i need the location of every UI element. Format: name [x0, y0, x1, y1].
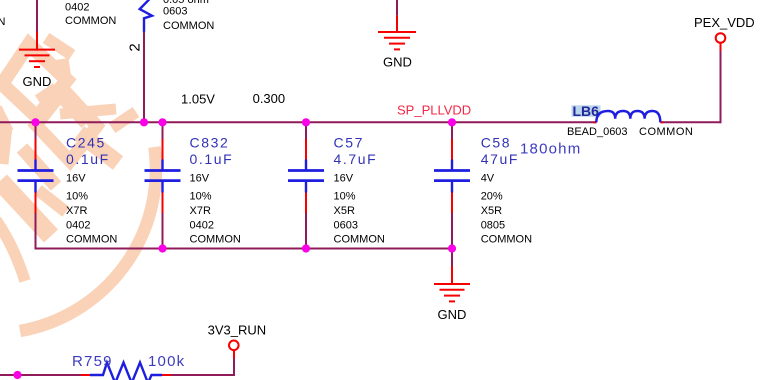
- svg-text:20%: 20%: [481, 191, 503, 203]
- svg-text:0.300: 0.300: [253, 91, 286, 106]
- svg-text:0402: 0402: [66, 219, 90, 231]
- svg-text:3V3_RUN: 3V3_RUN: [208, 323, 267, 338]
- svg-text:BEAD_0603: BEAD_0603: [567, 126, 628, 138]
- svg-text:COMMON: COMMON: [334, 233, 385, 245]
- svg-text:1.05V: 1.05V: [181, 92, 215, 107]
- svg-text:10%: 10%: [190, 191, 212, 203]
- svg-text:COMMON: COMMON: [66, 233, 117, 245]
- svg-text:0402: 0402: [65, 1, 89, 13]
- svg-text:0603: 0603: [163, 6, 187, 18]
- svg-text:4.7uF: 4.7uF: [334, 151, 378, 167]
- svg-text:SP_PLLVDD: SP_PLLVDD: [397, 103, 471, 118]
- svg-text:COMMON: COMMON: [163, 20, 214, 32]
- svg-text:4V: 4V: [481, 173, 495, 185]
- svg-text:C57: C57: [334, 134, 364, 150]
- svg-text:0805: 0805: [481, 219, 505, 231]
- svg-text:C832: C832: [190, 134, 230, 150]
- svg-text:LB6: LB6: [573, 103, 600, 119]
- svg-text:COMMON: COMMON: [190, 233, 241, 245]
- svg-text:0402: 0402: [190, 219, 214, 231]
- svg-text:C245: C245: [66, 134, 106, 150]
- svg-text:2: 2: [127, 43, 144, 51]
- svg-text:16V: 16V: [66, 173, 86, 185]
- svg-text:N: N: [0, 16, 6, 28]
- svg-text:X7R: X7R: [190, 205, 211, 217]
- svg-text:10%: 10%: [66, 191, 88, 203]
- svg-text:X7R: X7R: [66, 205, 87, 217]
- svg-text:X5R: X5R: [334, 205, 355, 217]
- svg-text:PEX_VDD: PEX_VDD: [694, 15, 755, 30]
- svg-text:0.1uF: 0.1uF: [66, 151, 110, 167]
- svg-text:X5R: X5R: [481, 205, 502, 217]
- svg-text:0603: 0603: [334, 219, 358, 231]
- svg-text:47uF: 47uF: [481, 151, 519, 167]
- svg-text:10%: 10%: [334, 191, 356, 203]
- svg-text:COMMON: COMMON: [65, 15, 116, 27]
- svg-text:C58: C58: [481, 134, 511, 150]
- svg-text:16V: 16V: [334, 173, 354, 185]
- svg-text:R759: R759: [72, 353, 113, 370]
- svg-text:0.1uF: 0.1uF: [190, 151, 234, 167]
- svg-text:GND: GND: [383, 55, 412, 70]
- svg-text:GND: GND: [23, 74, 52, 89]
- svg-text:COMMON: COMMON: [639, 126, 693, 138]
- svg-text:100k: 100k: [148, 353, 185, 370]
- svg-text:180ohm: 180ohm: [520, 141, 581, 158]
- svg-text:GND: GND: [438, 307, 467, 322]
- svg-text:16V: 16V: [190, 173, 210, 185]
- svg-text:COMMON: COMMON: [481, 233, 532, 245]
